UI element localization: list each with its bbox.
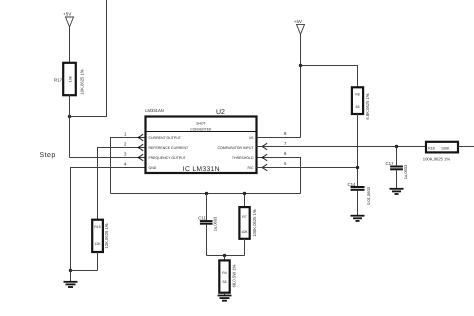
wire node to R4	[224, 256, 226, 261]
wire bus to C11	[206, 194, 208, 221]
wire C11 to bottom node	[206, 225, 208, 256]
wire R18 to right edge	[458, 146, 474, 148]
resistor R4	[219, 260, 236, 292]
node junction R4 top	[223, 254, 226, 257]
arrow pin2	[137, 144, 143, 151]
svg-text:+5V: +5V	[63, 12, 72, 17]
svg-text:R/C: R/C	[247, 166, 254, 170]
svg-text:68: 68	[356, 105, 360, 109]
wire from top edge to R17 node	[70, 0, 107, 117]
node junction R17/top wire	[68, 115, 71, 118]
svg-text:IC LM331N: IC LM331N	[183, 166, 220, 173]
wire C17 to ground	[396, 170, 398, 188]
svg-text:68: 68	[223, 280, 227, 284]
svg-text:SHOT: SHOT	[196, 122, 205, 126]
arrow pin3	[137, 154, 143, 161]
svg-text:10K: 10K	[69, 75, 73, 82]
svg-text:REFERENCE CURRENT: REFERENCE CURRENT	[149, 146, 190, 150]
svg-text:FREQUENCY OUTPUT: FREQUENCY OUTPUT	[149, 156, 187, 160]
capacitor C17	[385, 161, 408, 179]
arrow pin6	[261, 154, 268, 161]
arrow pin5	[261, 164, 268, 171]
resistor R7	[239, 207, 257, 239]
wire +5V to R17	[69, 27, 71, 63]
wire C14 to ground	[357, 191, 359, 215]
ground below R4	[218, 296, 232, 301]
wire R19 to bottom wire	[97, 252, 99, 271]
svg-text:100K,0625 1%: 100K,0625 1%	[423, 157, 451, 162]
wire R4 to ground	[224, 293, 226, 295]
svg-text:R19: R19	[94, 225, 100, 229]
svg-text:0.01,0603: 0.01,0603	[366, 186, 371, 205]
wire pin6 threshold riser	[257, 158, 301, 194]
node junction C17/pin7	[395, 145, 398, 148]
svg-text:C17: C17	[385, 161, 394, 166]
node junction pin5/R8/C14	[356, 166, 359, 169]
svg-text:R18: R18	[428, 147, 435, 151]
wire pin4 GND to left column	[71, 168, 146, 271]
svg-text:1u,0603: 1u,0603	[213, 216, 218, 231]
wire bus pin1/pin6/C11/R7	[111, 193, 301, 195]
resistor R18	[423, 142, 458, 162]
power +5V (left)	[63, 12, 74, 27]
wire pin2 reference current to R19	[98, 148, 146, 220]
svg-text:U2: U2	[216, 109, 225, 116]
svg-text:12K,0625 1%: 12K,0625 1%	[104, 223, 109, 248]
ground below C14	[351, 216, 365, 221]
svg-text:R4: R4	[222, 271, 227, 275]
svg-text:GND: GND	[149, 166, 157, 170]
node junction ground net	[69, 269, 72, 272]
node junction R7/bus	[243, 192, 246, 195]
wire C11/R7 bottom joining	[207, 255, 245, 257]
arrow pin7	[261, 143, 268, 150]
svg-text:+5V: +5V	[294, 19, 303, 24]
IC U2 LM331	[145, 108, 256, 173]
ground below C17	[390, 189, 404, 194]
wire pin5 R/C	[257, 167, 358, 169]
ground (bottom left)	[64, 271, 78, 288]
svg-text:1u,0603: 1u,0603	[403, 164, 408, 179]
wire bus to R7	[244, 194, 246, 208]
svg-text:C11: C11	[198, 215, 206, 220]
svg-text:THRESHOLD: THRESHOLD	[232, 156, 254, 160]
svg-text:R17: R17	[54, 78, 63, 83]
svg-text:CONVERTER: CONVERTER	[190, 127, 212, 131]
svg-text:R7: R7	[242, 215, 247, 219]
power +5V (right)	[294, 19, 305, 34]
node junction +5V branch	[299, 64, 302, 67]
wire junction to C17	[396, 147, 398, 166]
svg-text:LM331AN: LM331AN	[145, 108, 164, 113]
svg-text:Step: Step	[40, 152, 56, 159]
svg-text:12K: 12K	[94, 242, 101, 246]
svg-text:R8: R8	[355, 93, 360, 97]
wire R17 to pin3 node (Step net)	[69, 95, 71, 157]
wire pin8 VS	[257, 137, 301, 139]
svg-text:68,0.5W 1%: 68,0.5W 1%	[232, 264, 237, 287]
resistor R19	[92, 220, 109, 252]
wire R19 bottom to ground junction	[71, 270, 98, 272]
svg-text:100K,0625 1%: 100K,0625 1%	[252, 209, 257, 237]
svg-text:10K: 10K	[241, 230, 248, 234]
arrow pin1	[137, 134, 143, 141]
wire R8 down through pin5 node to C14	[357, 114, 359, 186]
node junction C11/bus	[205, 192, 208, 195]
wire +5V branch to R8	[301, 66, 358, 88]
wire R7 to bottom node	[244, 239, 246, 256]
resistor R8	[352, 87, 370, 119]
svg-text:CURRENT OUTPUT: CURRENT OUTPUT	[149, 136, 182, 140]
capacitor C11	[198, 215, 217, 231]
svg-text:COMPARATOR INPUT: COMPARATOR INPUT	[218, 146, 255, 150]
wire +5V column to pin8	[300, 34, 302, 137]
capacitor C14	[347, 182, 371, 205]
wire pin1 current output to bus	[111, 138, 146, 194]
svg-text:10K,0625 1%: 10K,0625 1%	[80, 69, 85, 94]
svg-text:VS: VS	[249, 136, 254, 140]
svg-text:6.8K,0625 1%: 6.8K,0625 1%	[365, 93, 370, 120]
wire pin7 comparator input to R18	[257, 146, 427, 148]
wire pin3 frequency output	[70, 157, 146, 159]
resistor R17	[54, 63, 85, 95]
svg-text:100K: 100K	[441, 147, 450, 151]
